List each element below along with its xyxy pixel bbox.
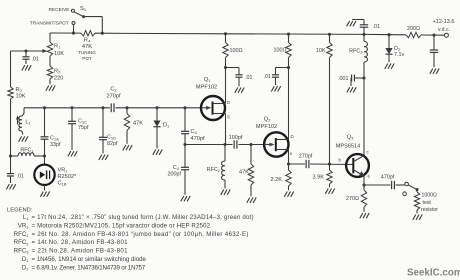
svg-text:= 1N456, 1N914 or similar swit: = 1N456, 1N914 or similar switching diod… xyxy=(32,256,147,263)
svg-text:47K: 47K xyxy=(133,121,143,127)
svg-text:R2: R2 xyxy=(54,69,61,75)
svg-text:= 22t No.28, Amidon FB-43-801: = 22t No.28, Amidon FB-43-801 xyxy=(32,248,129,255)
svg-text:C1D: C1D xyxy=(107,135,116,141)
svg-text:10K: 10K xyxy=(316,48,326,54)
svg-text:C1B: C1B xyxy=(58,180,67,186)
svg-text:MPF102: MPF102 xyxy=(196,85,217,91)
svg-text:SeekIC.com: SeekIC.com xyxy=(407,268,460,279)
svg-text:47K: 47K xyxy=(239,170,249,176)
svg-text:S1: S1 xyxy=(80,6,87,12)
svg-text:1000Ω: 1000Ω xyxy=(422,193,438,199)
svg-text:Q3: Q3 xyxy=(347,135,354,141)
svg-text:= 6.8/9.1v. Zener, 1N4736/1N47: = 6.8/9.1v. Zener, 1N4736/1N4739 or 1N75… xyxy=(32,264,146,271)
svg-text:C1C: C1C xyxy=(78,119,87,125)
svg-text:LEGEND:: LEGEND: xyxy=(7,208,33,214)
svg-text:270pf: 270pf xyxy=(299,153,313,159)
svg-text:S: S xyxy=(227,115,230,120)
svg-text:100Ω: 100Ω xyxy=(230,48,243,54)
svg-text:v.d.c.: v.d.c. xyxy=(438,27,450,33)
svg-text:D1: D1 xyxy=(163,122,170,128)
svg-text:200Ω: 200Ω xyxy=(407,26,420,32)
svg-text:resistor: resistor xyxy=(421,207,438,213)
svg-text:MPS6514: MPS6514 xyxy=(336,144,361,150)
svg-text:220: 220 xyxy=(54,76,63,82)
svg-text:test: test xyxy=(423,200,432,206)
svg-text:RFC2: RFC2 xyxy=(207,167,221,173)
svg-text:R2502*: R2502* xyxy=(58,174,77,180)
svg-text:.01: .01 xyxy=(373,24,381,30)
svg-text:C3: C3 xyxy=(191,129,198,135)
svg-text:+12-13.6: +12-13.6 xyxy=(433,19,455,25)
svg-text:470pf: 470pf xyxy=(381,175,395,181)
svg-text:RFC1: RFC1 xyxy=(20,147,34,153)
svg-text:Q1: Q1 xyxy=(204,77,211,83)
svg-text:Q2: Q2 xyxy=(264,117,271,123)
svg-text:2.2K: 2.2K xyxy=(270,177,282,183)
svg-text:= 26t No. 28, Amidon FB-43-801: = 26t No. 28, Amidon FB-43-801 “jumbo be… xyxy=(32,231,249,238)
svg-text:R4: R4 xyxy=(84,38,91,44)
svg-text:270pf: 270pf xyxy=(107,94,121,100)
svg-text:100Ω: 100Ω xyxy=(273,48,286,54)
svg-text:VR1: VR1 xyxy=(58,168,69,174)
svg-text:.01: .01 xyxy=(245,75,253,81)
svg-text:C4: C4 xyxy=(173,165,180,171)
svg-text:470pf: 470pf xyxy=(191,136,205,142)
svg-text:82pf: 82pf xyxy=(107,141,118,147)
svg-text:10K: 10K xyxy=(16,94,26,100)
svg-text:C2: C2 xyxy=(110,87,117,93)
svg-text:.01: .01 xyxy=(264,74,272,80)
svg-text:10K: 10K xyxy=(54,51,64,57)
svg-text:7.1v: 7.1v xyxy=(394,52,404,58)
svg-text:TRANSMIT/SPOT: TRANSMIT/SPOT xyxy=(30,21,69,27)
svg-text:.01: .01 xyxy=(17,173,25,179)
svg-text:R3: R3 xyxy=(16,87,23,93)
svg-text:RECEIVE: RECEIVE xyxy=(48,7,69,13)
svg-text:L1: L1 xyxy=(25,120,31,126)
svg-text:.01: .01 xyxy=(32,57,40,63)
svg-text:3.9K: 3.9K xyxy=(312,175,324,181)
svg-text:270Ω: 270Ω xyxy=(346,196,359,202)
svg-text:RFC3: RFC3 xyxy=(349,49,363,55)
svg-text:D: D xyxy=(227,100,230,105)
svg-text:.001: .001 xyxy=(338,76,349,82)
svg-text:MPF102: MPF102 xyxy=(256,124,277,130)
svg-text:100pf: 100pf xyxy=(229,135,243,141)
svg-text:= Motorola R2502/MV2105, 15pf: = Motorola R2502/MV2105, 15pf varactor d… xyxy=(32,222,211,229)
svg-text:R1: R1 xyxy=(54,44,61,50)
svg-text:200pf: 200pf xyxy=(168,172,182,178)
svg-text:= 17t No.24, .281” × .750” slu: = 17t No.24, .281” × .750” slug tuned fo… xyxy=(32,214,254,221)
svg-text:POT: POT xyxy=(82,56,92,61)
svg-text:C1A: C1A xyxy=(50,135,59,141)
svg-text:= 14t No. 28, Amidon FB-43-801: = 14t No. 28, Amidon FB-43-801 xyxy=(32,239,129,246)
svg-text:TUNING: TUNING xyxy=(78,50,96,55)
svg-text:33pf: 33pf xyxy=(50,142,61,148)
svg-text:75pf: 75pf xyxy=(78,125,89,131)
svg-text:D: D xyxy=(291,134,294,139)
